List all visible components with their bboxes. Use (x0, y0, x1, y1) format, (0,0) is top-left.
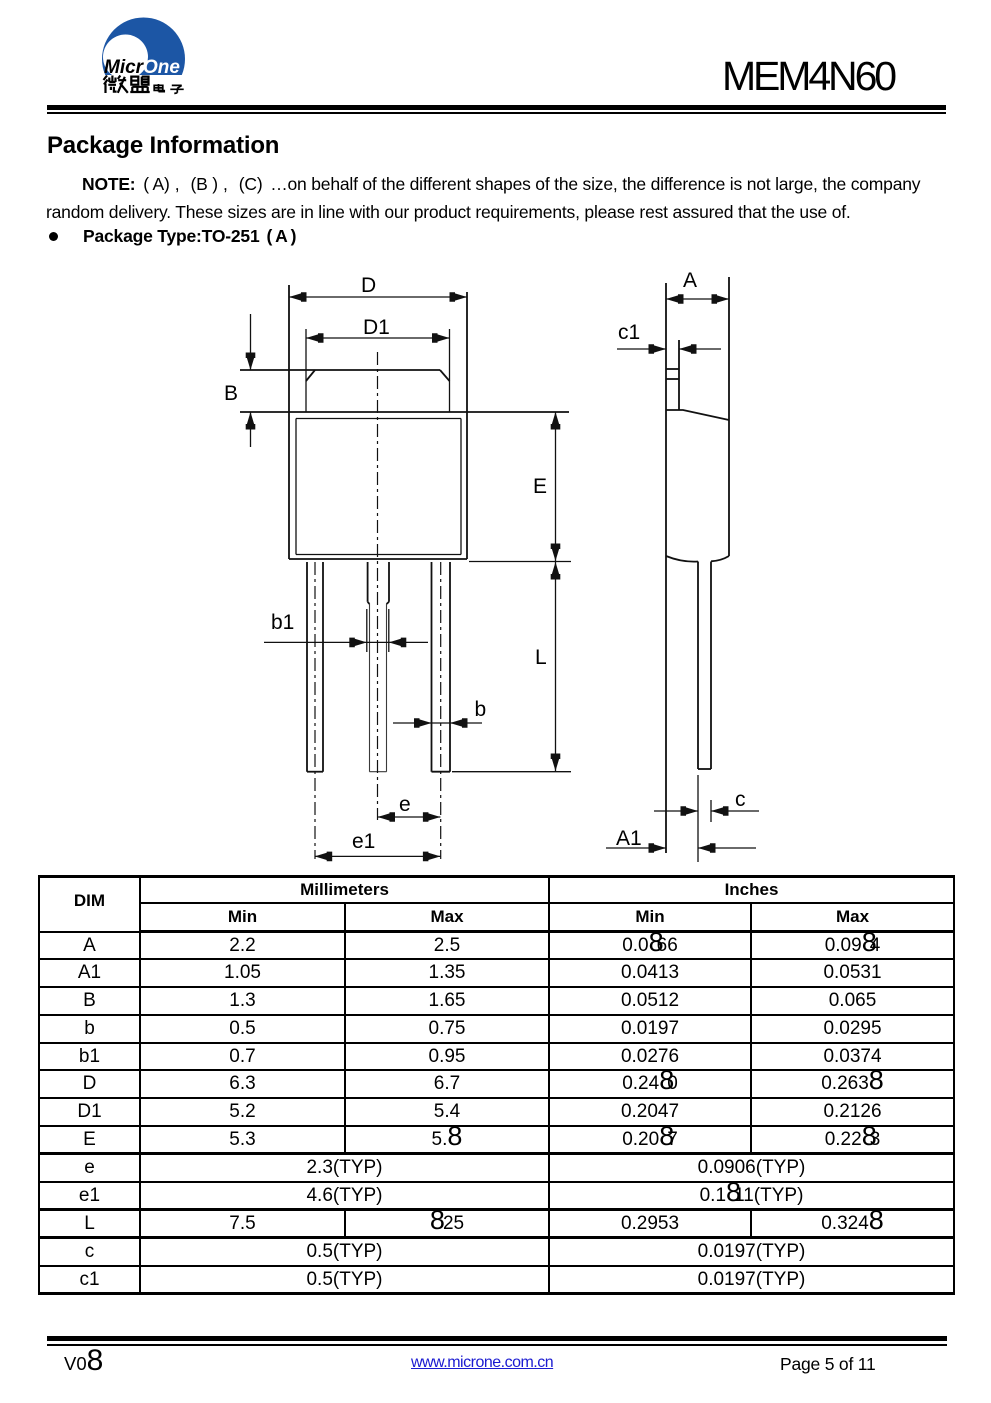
A arrows (666, 294, 684, 304)
front view left outline/ext line (288, 285, 290, 559)
b dim (393, 722, 482, 724)
D dim (289, 296, 467, 298)
note paragraph line 1 (82, 176, 920, 194)
footer version (64, 1355, 103, 1374)
svg-text:b1: b1 (271, 611, 294, 634)
E ext (469, 561, 571, 563)
side right line (728, 277, 730, 556)
header double rule (47, 105, 946, 110)
c1 dim (617, 348, 666, 350)
meng: ri box (131, 77, 138, 85)
svg-text:A1: A1 (616, 827, 642, 850)
wei: right part (118, 76, 128, 93)
bullet (49, 232, 58, 241)
svg-text:c1: c1 (618, 321, 640, 344)
c dim (654, 810, 698, 812)
footer page (780, 1356, 876, 1374)
centerline middle (377, 352, 379, 820)
meng: min bottom (130, 87, 149, 92)
A1 arrows (649, 843, 667, 853)
D arrows (289, 292, 307, 302)
b1 ext lines (366, 609, 368, 652)
svg-text:c: c (735, 788, 746, 811)
body top slant (666, 410, 729, 420)
right lead (431, 562, 433, 772)
cap right chamfer (440, 370, 450, 381)
e1 dim (315, 855, 441, 857)
side lead (697, 562, 699, 770)
c arrows (681, 806, 699, 816)
arrows front (246, 292, 561, 861)
A1 dim (606, 847, 666, 849)
e1 arrows (315, 852, 333, 862)
svg-text:e1: e1 (352, 830, 375, 853)
D1 arrows (306, 333, 324, 343)
middle lead chamfer (368, 602, 370, 604)
D1 dim (306, 337, 450, 339)
svg-text:A: A (683, 269, 697, 292)
zi (170, 85, 183, 93)
body top line (240, 411, 569, 413)
centerline left lead (314, 562, 316, 859)
L dim (555, 562, 557, 771)
cap top edge + B top ext (240, 369, 440, 371)
side lead ext lines (697, 775, 699, 862)
svg-text:E: E (533, 475, 547, 498)
svg-text:D: D (361, 274, 376, 297)
footer double rule (47, 1336, 947, 1341)
svg-text:e: e (399, 793, 411, 816)
left lead (306, 562, 308, 772)
L arrows (551, 562, 561, 580)
tab ticks (666, 368, 679, 370)
svg-text:L: L (535, 646, 547, 669)
c1 arrows (649, 344, 667, 354)
svg-text:D1: D1 (363, 316, 390, 339)
E arrows (551, 412, 561, 430)
part number MEM4N60 (722, 56, 894, 97)
dimension lines front (251, 297, 572, 856)
front view right outline/ext line (466, 292, 468, 559)
heading (47, 134, 279, 158)
centerlines dash-dot (315, 352, 441, 859)
body bottom curves (666, 556, 698, 562)
centerline right lead (440, 562, 442, 859)
labels front (224, 269, 746, 853)
b arrows (414, 718, 432, 728)
middle lead lower (thin) (370, 604, 387, 772)
logo CJK weimeng dianzi (98, 72, 190, 98)
D1 ext lines (305, 329, 307, 412)
B arrows (246, 353, 256, 371)
B dim (250, 314, 252, 370)
A dim (666, 298, 729, 300)
e arrows (378, 812, 396, 822)
logo MicrOne (98, 14, 188, 100)
svg-text:B: B (224, 382, 238, 405)
tab right edge (678, 340, 680, 410)
meng: yue box (141, 77, 148, 85)
e dim (378, 816, 441, 818)
L ext (452, 771, 571, 773)
E dim (555, 412, 557, 561)
b1 arrows (349, 638, 367, 648)
wei: middle (108, 76, 116, 92)
wei: left radical (104, 76, 108, 94)
side left line (665, 283, 667, 853)
middle lead upper (367, 562, 369, 602)
svg-text:b: b (475, 698, 487, 721)
note paragraph line 2 (46, 204, 851, 222)
b1 dim (264, 641, 428, 643)
body bottom (289, 558, 467, 560)
footer link (411, 1355, 553, 1371)
cap left chamfer (306, 370, 315, 381)
dian (154, 84, 164, 92)
body inner rect (296, 419, 461, 555)
